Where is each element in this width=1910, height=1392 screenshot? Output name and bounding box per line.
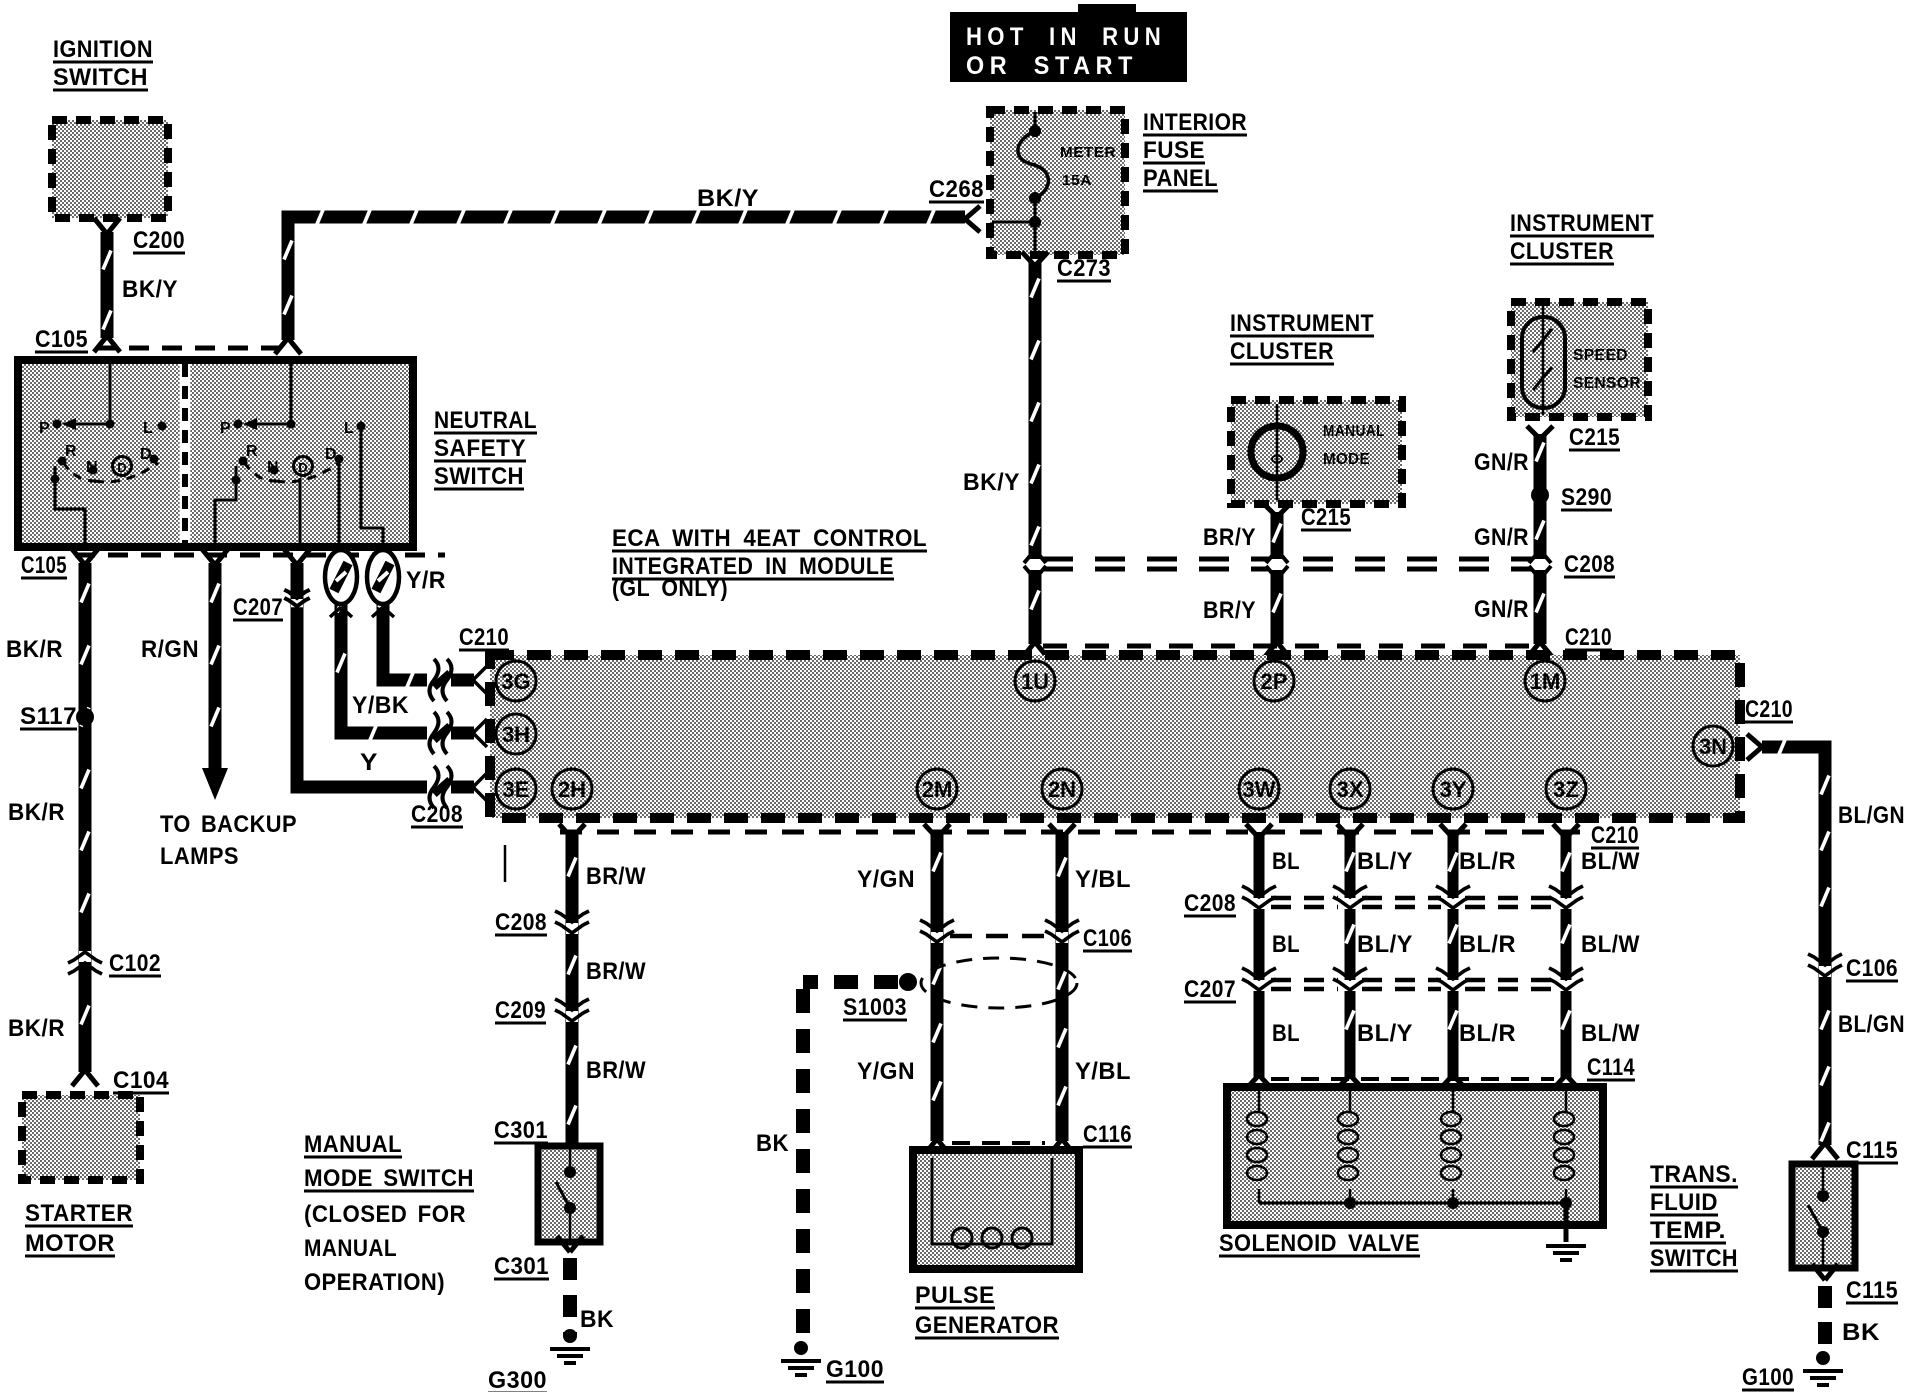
svg-text:INTERIOR: INTERIOR bbox=[1143, 109, 1247, 136]
svg-text:C116: C116 bbox=[1083, 1121, 1132, 1148]
svg-text:C106: C106 bbox=[1846, 955, 1898, 982]
svg-text:R/GN: R/GN bbox=[141, 636, 199, 663]
svg-text:C115: C115 bbox=[1846, 1137, 1898, 1164]
svg-text:P: P bbox=[220, 420, 231, 437]
svg-text:C210: C210 bbox=[1591, 822, 1639, 849]
svg-text:SWITCH: SWITCH bbox=[1650, 1245, 1738, 1272]
svg-text:3X: 3X bbox=[1337, 777, 1364, 802]
svg-text:GN/R: GN/R bbox=[1474, 524, 1529, 551]
svg-text:R: R bbox=[246, 443, 258, 460]
svg-text:C105: C105 bbox=[21, 552, 67, 579]
svg-text:INSTRUMENT: INSTRUMENT bbox=[1230, 310, 1374, 337]
svg-text:Y/GN: Y/GN bbox=[857, 1058, 915, 1085]
svg-text:MANUAL: MANUAL bbox=[1323, 423, 1385, 440]
svg-text:3H: 3H bbox=[502, 722, 530, 747]
svg-text:BK/R: BK/R bbox=[6, 636, 63, 663]
svg-text:MODE: MODE bbox=[1323, 451, 1370, 468]
svg-text:BK/Y: BK/Y bbox=[697, 185, 759, 212]
svg-text:C208: C208 bbox=[495, 909, 547, 936]
svg-text:R: R bbox=[65, 443, 77, 460]
svg-text:3Z: 3Z bbox=[1553, 777, 1579, 802]
svg-text:1M: 1M bbox=[1530, 669, 1561, 694]
svg-text:3Y: 3Y bbox=[1440, 777, 1467, 802]
svg-text:Y/BK: Y/BK bbox=[352, 692, 409, 719]
svg-text:C200: C200 bbox=[133, 227, 185, 254]
svg-text:BK/Y: BK/Y bbox=[963, 469, 1020, 496]
svg-text:SENSOR: SENSOR bbox=[1573, 375, 1641, 392]
svg-text:BL/GN: BL/GN bbox=[1838, 1011, 1905, 1038]
svg-text:BK/R: BK/R bbox=[8, 799, 65, 826]
svg-text:BL/R: BL/R bbox=[1459, 848, 1516, 875]
svg-text:MOTOR: MOTOR bbox=[25, 1230, 115, 1257]
svg-text:GN/R: GN/R bbox=[1474, 449, 1529, 476]
svg-text:BL/W: BL/W bbox=[1581, 848, 1640, 875]
svg-text:HOT IN RUN: HOT IN RUN bbox=[966, 23, 1166, 51]
svg-text:BR/Y: BR/Y bbox=[1203, 524, 1256, 551]
svg-text:BR/W: BR/W bbox=[586, 1057, 646, 1084]
svg-text:METER: METER bbox=[1060, 144, 1116, 161]
svg-text:C273: C273 bbox=[1057, 255, 1111, 282]
svg-text:CLUSTER: CLUSTER bbox=[1230, 338, 1334, 365]
svg-text:SOLENOID VALVE: SOLENOID VALVE bbox=[1219, 1230, 1420, 1257]
svg-text:C115: C115 bbox=[1846, 1277, 1898, 1304]
svg-text:(GL ONLY): (GL ONLY) bbox=[612, 575, 728, 602]
svg-text:SPEED: SPEED bbox=[1573, 347, 1628, 364]
svg-text:(CLOSED FOR: (CLOSED FOR bbox=[304, 1201, 466, 1228]
svg-text:SAFETY: SAFETY bbox=[434, 435, 526, 462]
svg-text:BL/GN: BL/GN bbox=[1838, 802, 1905, 829]
svg-text:BL: BL bbox=[1272, 848, 1300, 875]
svg-text:C210: C210 bbox=[459, 624, 509, 651]
svg-text:3G: 3G bbox=[501, 669, 530, 694]
svg-text:MANUAL: MANUAL bbox=[304, 1235, 397, 1262]
svg-text:NEUTRAL: NEUTRAL bbox=[434, 407, 537, 434]
svg-text:C208: C208 bbox=[411, 801, 463, 828]
svg-text:C114: C114 bbox=[1587, 1054, 1635, 1081]
svg-text:FLUID: FLUID bbox=[1650, 1189, 1718, 1216]
svg-text:LAMPS: LAMPS bbox=[160, 843, 239, 870]
svg-text:STARTER: STARTER bbox=[25, 1200, 133, 1227]
svg-text:2N: 2N bbox=[1048, 777, 1076, 802]
svg-text:G100: G100 bbox=[1742, 1364, 1794, 1391]
svg-text:TO BACKUP: TO BACKUP bbox=[160, 811, 297, 838]
svg-text:BL: BL bbox=[1272, 931, 1300, 958]
svg-text:C210: C210 bbox=[1565, 624, 1612, 651]
svg-text:C268: C268 bbox=[929, 176, 984, 203]
svg-text:2M: 2M bbox=[922, 777, 953, 802]
svg-text:BL/W: BL/W bbox=[1581, 931, 1640, 958]
svg-text:OR START: OR START bbox=[966, 52, 1138, 80]
svg-text:BL/R: BL/R bbox=[1459, 1020, 1516, 1047]
svg-text:C102: C102 bbox=[109, 950, 161, 977]
svg-text:C207: C207 bbox=[233, 594, 283, 621]
svg-text:BL/W: BL/W bbox=[1581, 1020, 1640, 1047]
svg-text:S117: S117 bbox=[20, 703, 77, 730]
svg-text:C301: C301 bbox=[494, 1117, 548, 1144]
svg-text:P: P bbox=[39, 420, 50, 437]
svg-text:IGNITION: IGNITION bbox=[53, 36, 153, 63]
svg-text:2H: 2H bbox=[558, 777, 586, 802]
svg-text:Y/BL: Y/BL bbox=[1075, 866, 1131, 893]
svg-text:BR/W: BR/W bbox=[586, 863, 646, 890]
svg-text:SWITCH: SWITCH bbox=[434, 463, 524, 490]
svg-text:Y: Y bbox=[360, 749, 378, 776]
svg-text:BK: BK bbox=[1842, 1319, 1880, 1346]
svg-text:CLUSTER: CLUSTER bbox=[1510, 238, 1614, 265]
svg-text:C208: C208 bbox=[1184, 890, 1236, 917]
svg-text:3N: 3N bbox=[1699, 734, 1727, 759]
svg-text:FUSE: FUSE bbox=[1143, 137, 1205, 164]
svg-text:C106: C106 bbox=[1083, 925, 1132, 952]
svg-text:BK: BK bbox=[756, 1130, 789, 1157]
svg-text:BK/R: BK/R bbox=[8, 1015, 65, 1042]
svg-text:GN/R: GN/R bbox=[1474, 596, 1529, 623]
svg-text:L: L bbox=[344, 420, 354, 437]
svg-text:C209: C209 bbox=[495, 997, 546, 1024]
svg-text:S1003: S1003 bbox=[843, 994, 907, 1021]
svg-text:PULSE: PULSE bbox=[915, 1282, 995, 1309]
svg-text:SWITCH: SWITCH bbox=[53, 64, 148, 91]
svg-text:BK: BK bbox=[580, 1306, 614, 1333]
svg-text:C104: C104 bbox=[113, 1067, 169, 1094]
svg-text:BL: BL bbox=[1272, 1020, 1300, 1047]
svg-text:D: D bbox=[298, 460, 307, 475]
svg-text:C301: C301 bbox=[494, 1253, 549, 1280]
svg-text:C207: C207 bbox=[1184, 976, 1236, 1003]
svg-text:GENERATOR: GENERATOR bbox=[915, 1312, 1059, 1339]
svg-text:D: D bbox=[117, 460, 126, 475]
svg-text:L: L bbox=[143, 420, 153, 437]
svg-text:Y/R: Y/R bbox=[406, 567, 446, 594]
svg-text:MANUAL: MANUAL bbox=[304, 1131, 402, 1158]
svg-text:G300: G300 bbox=[488, 1367, 547, 1392]
svg-text:3E: 3E bbox=[503, 777, 530, 802]
svg-text:C208: C208 bbox=[1564, 551, 1615, 578]
svg-text:BL/Y: BL/Y bbox=[1357, 1020, 1413, 1047]
svg-text:INSTRUMENT: INSTRUMENT bbox=[1510, 210, 1654, 237]
svg-text:BL/Y: BL/Y bbox=[1357, 931, 1413, 958]
svg-text:PANEL: PANEL bbox=[1143, 165, 1218, 192]
svg-text:MODE SWITCH: MODE SWITCH bbox=[304, 1165, 474, 1192]
svg-text:BR/Y: BR/Y bbox=[1203, 597, 1256, 624]
svg-text:1U: 1U bbox=[1021, 669, 1049, 694]
svg-text:C210: C210 bbox=[1745, 696, 1793, 723]
svg-text:C215: C215 bbox=[1301, 504, 1351, 531]
svg-text:BK/Y: BK/Y bbox=[122, 276, 178, 303]
svg-text:Y/BL: Y/BL bbox=[1075, 1058, 1131, 1085]
svg-text:ECA WITH 4EAT CONTROL: ECA WITH 4EAT CONTROL bbox=[612, 525, 927, 552]
svg-text:BL/R: BL/R bbox=[1459, 931, 1516, 958]
svg-text:2P: 2P bbox=[1261, 669, 1288, 694]
svg-text:C215: C215 bbox=[1569, 424, 1620, 451]
svg-text:Y/GN: Y/GN bbox=[857, 866, 915, 893]
svg-text:3W: 3W bbox=[1243, 777, 1276, 802]
svg-text:TEMP.: TEMP. bbox=[1650, 1217, 1726, 1244]
svg-text:15A: 15A bbox=[1062, 172, 1092, 189]
svg-text:S290: S290 bbox=[1561, 484, 1612, 511]
svg-text:TRANS.: TRANS. bbox=[1650, 1161, 1738, 1188]
svg-text:BL/Y: BL/Y bbox=[1357, 848, 1413, 875]
svg-text:C105: C105 bbox=[35, 326, 88, 353]
svg-text:BR/W: BR/W bbox=[586, 958, 646, 985]
svg-text:G100: G100 bbox=[826, 1356, 884, 1383]
svg-text:OPERATION): OPERATION) bbox=[304, 1269, 445, 1296]
